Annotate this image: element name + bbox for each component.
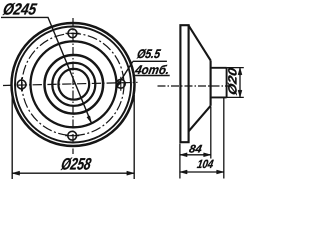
extension line B	[210, 107, 212, 159]
arrow left	[12, 171, 19, 175]
svg-text:Ø258: Ø258	[60, 154, 93, 173]
svg-text:Ø5.5: Ø5.5	[136, 47, 162, 61]
bore circle	[58, 69, 89, 100]
bolt hole left	[17, 78, 26, 92]
hub top edge	[211, 67, 227, 69]
leader D245	[1, 17, 92, 123]
extension line C	[223, 98, 225, 179]
extension line right	[133, 95, 135, 179]
svg-text:Ø245: Ø245	[2, 1, 39, 19]
front view vertical centerline	[72, 18, 74, 154]
dimension D20	[227, 68, 244, 98]
dimension line	[12, 172, 134, 174]
side view centerline	[158, 85, 231, 87]
hub bottom edge	[211, 96, 227, 98]
svg-text:4оmб.: 4оmб.	[133, 63, 170, 77]
hub end face	[226, 68, 228, 98]
dimension 104	[180, 98, 224, 179]
ring outer circle	[52, 63, 95, 106]
bolt hole right	[116, 77, 125, 91]
extension line left	[11, 95, 13, 179]
svg-text:84: 84	[188, 143, 203, 155]
front view horizontal centerline	[3, 82, 138, 85]
bolt hole top	[66, 29, 80, 38]
hub circle	[45, 55, 104, 114]
taper edge circle	[31, 41, 117, 127]
svg-text:Ø20: Ø20	[226, 66, 240, 96]
dimension 84	[180, 107, 211, 179]
circle D245	[15, 27, 131, 143]
taper top diagonal	[189, 26, 211, 61]
side view flange plate	[180, 25, 188, 142]
bolt circle (dash-dot)	[22, 34, 124, 136]
extension line A	[179, 144, 181, 179]
taper bottom diagonal	[189, 106, 211, 132]
leader 4 holes	[116, 61, 170, 88]
dimension D258	[12, 95, 134, 179]
arrow right	[127, 171, 134, 175]
svg-text:104: 104	[196, 157, 215, 171]
taper base vertical	[210, 60, 212, 105]
outer circle D258	[12, 23, 135, 146]
bolt hole bottom	[65, 131, 79, 140]
